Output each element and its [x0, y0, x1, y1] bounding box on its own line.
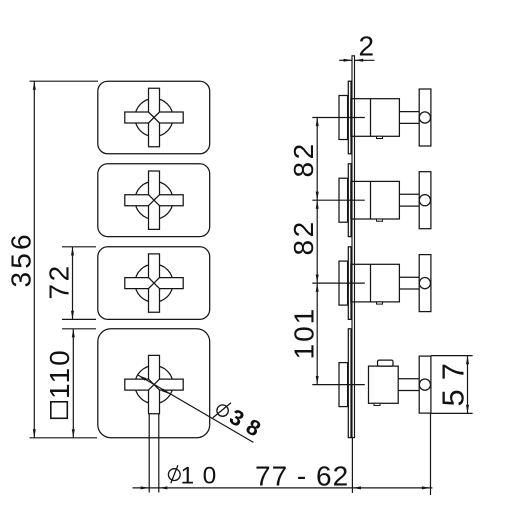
front plate 4 (thermostat escutcheon) — [98, 329, 210, 438]
side valve 3: body divider line — [370, 264, 372, 302]
svg-text:72: 72 — [44, 263, 75, 299]
handle cross 1: plus-shaped arms — [125, 88, 183, 146]
handle cross 4: center X — [149, 379, 160, 390]
dim o38: label diameter symbol — [217, 405, 228, 416]
side valve 1: handle bar — [419, 89, 431, 146]
side valve 4: thermostat body — [369, 366, 399, 403]
svg-text:57: 57 — [436, 354, 471, 406]
side valve 2: stem top line — [399, 193, 419, 195]
side valve 1: stem bottom line — [399, 122, 419, 124]
dim 72: dimension line — [72, 247, 74, 320]
side valve 1: flange ring — [339, 96, 348, 140]
handle 4 stem (o10) right line / extension — [158, 414, 160, 493]
dim 356: bottom extension line — [30, 437, 98, 439]
handle 4 stem (o10) left line / extension — [148, 414, 150, 493]
side valve 4: stem top line — [398, 378, 419, 380]
dim o10: label diameter symbol — [168, 469, 180, 481]
side valve 3: bottom notch — [377, 302, 383, 304]
side valve 2: body divider line — [370, 181, 372, 219]
dim 77-62: left extension line (wall plate) — [351, 438, 353, 493]
side valve 4: stem bottom line — [398, 390, 419, 392]
side valve 1: bottom notch — [377, 136, 383, 138]
dim 110: square symbol — [51, 402, 68, 419]
side valve 4: bottom notch — [374, 403, 380, 405]
svg-text:2: 2 — [359, 31, 375, 62]
side valve 4: top button — [378, 360, 394, 366]
svg-text:110: 110 — [44, 348, 75, 399]
svg-text:82: 82 — [288, 141, 319, 177]
side valve 3: stem bottom line — [399, 288, 419, 290]
svg-text:356: 356 — [6, 231, 37, 287]
side valve 1: handle hub circle — [419, 112, 430, 123]
dim 110: dimension line — [72, 329, 74, 438]
side valve 3: stem top line — [399, 276, 419, 278]
dim 72: bottom extension line (plate3 bottom) — [62, 318, 96, 320]
side valve 2: body — [351, 181, 400, 219]
side valve 4: handle hub circle — [419, 379, 430, 390]
dim 356: top extension line — [30, 80, 99, 82]
side valve 2: stem bottom line — [399, 205, 419, 207]
handle cross 4: plus-shaped arms — [125, 355, 183, 413]
handle cross 3: circle — [135, 264, 173, 302]
handle cross 1: center X — [149, 112, 160, 123]
side valve 1: body divider line — [370, 99, 372, 137]
side valve 2: handle bar — [419, 172, 431, 229]
side valve 2: bottom notch — [377, 219, 383, 221]
dim o10 / 77-62: shared bottom dimension line — [133, 487, 433, 489]
handle cross 2: center X — [149, 195, 160, 206]
handle cross 2: plus-shaped arms — [125, 171, 183, 229]
side valve 4: handle bar — [419, 356, 431, 413]
side rosette plate 1 — [348, 81, 351, 154]
side valve 1: body — [351, 99, 400, 137]
side rosette plate 3 — [348, 247, 351, 320]
dim 77-62: right extension line (handle) — [430, 413, 432, 495]
front plate 2 — [98, 164, 210, 237]
side rosette plate 2 — [348, 164, 351, 237]
side rosette plate 4 — [348, 329, 351, 438]
front plate 1 (top escutcheon) — [98, 81, 210, 154]
dim 2: dimension line right segment — [355, 59, 375, 61]
dim 356: dimension line — [33, 81, 35, 438]
side valve 3: body — [351, 264, 400, 302]
dim 2: dimension line left segment — [339, 59, 352, 61]
dim 57: dimension line — [467, 356, 469, 414]
side valve 2: handle hub circle — [419, 195, 430, 206]
handle cross 2: circle — [135, 181, 173, 219]
side valve 2: flange ring — [339, 178, 348, 222]
svg-text:10: 10 — [181, 462, 225, 489]
side valve 1: center line — [312, 117, 365, 119]
svg-text:101: 101 — [289, 307, 320, 360]
svg-text:77 - 62: 77 - 62 — [255, 460, 349, 491]
handle cross 3: plus-shaped arms — [125, 254, 183, 312]
dim o10: outside arrows — [141, 486, 150, 489]
handle cross 3: center X — [149, 278, 160, 289]
side valve 3: handle hub circle — [419, 278, 430, 289]
dim 110: top extension line (plate4 top) — [62, 328, 96, 330]
side valve 3: flange ring — [339, 261, 348, 305]
side valve 1: stem top line — [399, 111, 419, 113]
dim 57: bottom extension line — [431, 412, 473, 414]
dim 57: top extension line — [431, 355, 473, 357]
side valve 3: handle bar — [419, 255, 431, 312]
side valve 2: center line — [312, 199, 365, 201]
handle cross 1: circle — [135, 99, 173, 137]
svg-text:82: 82 — [288, 219, 319, 255]
dim 72: top extension line (plate3 top) — [62, 246, 96, 248]
dim chain 82/82/101: dimension line — [316, 118, 318, 385]
dim o38: leader line through circle — [138, 375, 253, 442]
side valve 4: flange ring — [339, 363, 348, 407]
front plate 3 — [98, 247, 210, 320]
side view: wall plate (2mm thick) — [352, 56, 355, 438]
side valve 3: center line — [312, 282, 365, 284]
side valve 4: center line — [312, 384, 365, 386]
handle cross 4: circle — [135, 366, 173, 404]
